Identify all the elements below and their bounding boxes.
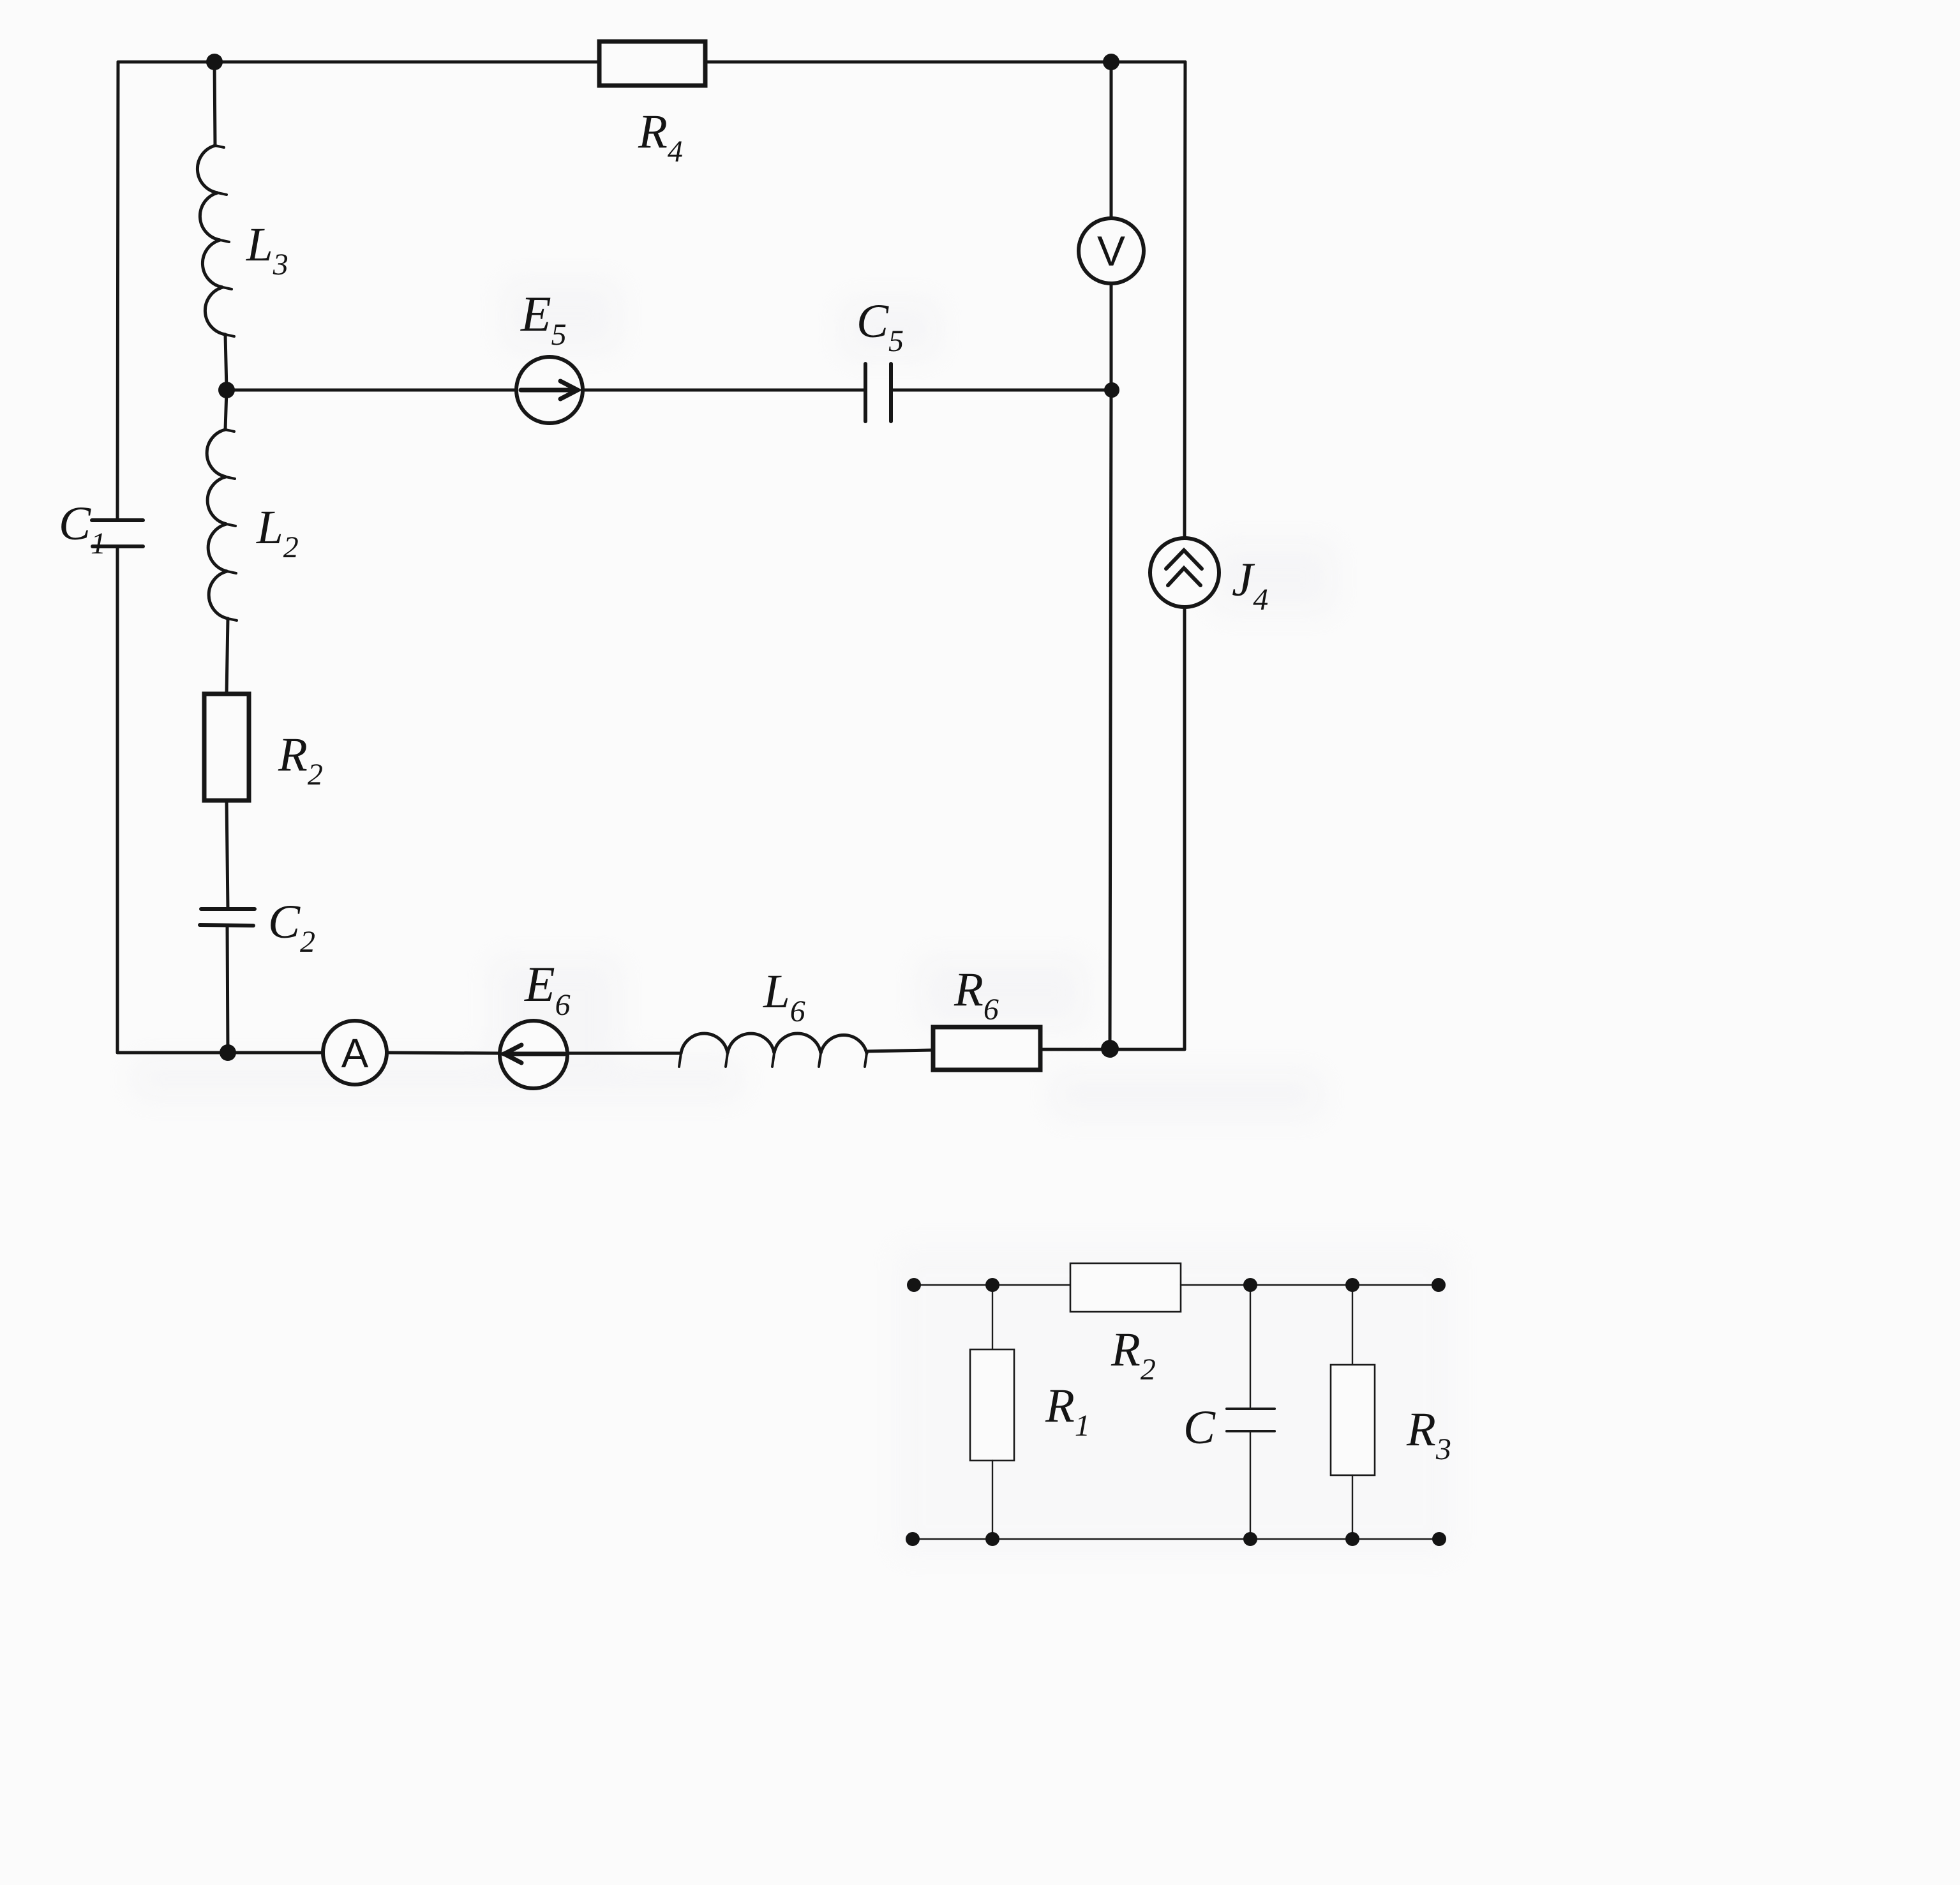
- svg-text:L6: L6: [763, 965, 805, 1028]
- wire: outer right vertical upper (top corner down to J4): [1185, 62, 1185, 538]
- wire: middle horizontal, L3/L2 node to E5: [227, 389, 516, 392]
- voltmeter V: [1079, 218, 1144, 283]
- wire: bottom horizontal, ammeter to source E6: [387, 1053, 500, 1053]
- wire: R1 bottom stub: [992, 1461, 993, 1539]
- svg-text:V: V: [1097, 227, 1125, 274]
- wire: C bottom stub: [1250, 1431, 1251, 1539]
- node dot lower top 1: [907, 1278, 921, 1292]
- node dot lower top 2: [985, 1278, 999, 1292]
- voltage source E5: [516, 357, 583, 423]
- wire: L3 tail to middle node: [225, 334, 227, 390]
- svg-text:L2: L2: [256, 501, 299, 564]
- node dot lower top 3: [1243, 1278, 1257, 1292]
- svg-text:L3: L3: [246, 218, 288, 282]
- wire: top horizontal from R4 to top-right corner: [705, 61, 1185, 64]
- wire: left vertical lower segment: [116, 546, 119, 1053]
- wire: stub from middle node into L2: [225, 390, 227, 430]
- node dot middle-left (L3/L2 junction): [218, 382, 235, 398]
- node dot bottom-right: [1101, 1040, 1119, 1058]
- svg-text:C: C: [1183, 1401, 1216, 1454]
- node dot lower bottom 4: [1345, 1532, 1359, 1546]
- capacitor C5: [865, 364, 891, 421]
- wire: stub from top node into L3: [214, 62, 215, 146]
- wire: C2 down to bottom node: [227, 926, 228, 1053]
- node dot middle-right: [1104, 382, 1119, 398]
- wire: bottom horizontal, E6 to L6: [567, 1052, 681, 1055]
- wire: lower bottom rail: [913, 1538, 1439, 1540]
- svg-text:R2: R2: [278, 728, 323, 792]
- inductor L6: [681, 1033, 867, 1053]
- capacitor C2: [200, 909, 255, 926]
- wire: R3 top stub: [1352, 1285, 1353, 1365]
- inductor L3: [197, 146, 225, 334]
- wire: inner right vertical, middle node down to bottom node: [1110, 390, 1111, 1049]
- resistor R2 (lower): [1070, 1263, 1181, 1312]
- wire: left vertical upper segment: [117, 62, 118, 520]
- svg-text:R4: R4: [638, 105, 683, 169]
- capacitor C1: [92, 520, 143, 546]
- node dot lower top 4: [1345, 1278, 1359, 1292]
- wire: bottom horizontal, R6 to bottom-right corner: [1040, 1048, 1185, 1051]
- wire: middle horizontal, C5 to inner right vertical: [891, 389, 1111, 392]
- node dot top-right: [1103, 54, 1119, 70]
- wire: middle horizontal, E5 to C5: [583, 389, 865, 392]
- current source J4: [1150, 538, 1219, 607]
- node dot top-left (L3 junction): [206, 54, 223, 70]
- svg-text:C1: C1: [59, 497, 106, 560]
- voltage source E6: [500, 1021, 567, 1088]
- wire: R1 top stub: [992, 1285, 993, 1349]
- inductor L2: [207, 430, 228, 619]
- node dot lower bottom 3: [1243, 1532, 1257, 1546]
- wire: L2 tail to R2: [227, 619, 228, 694]
- wire: bottom horizontal, left corner to ammeter: [117, 1051, 323, 1055]
- resistor R6: [933, 1027, 1040, 1070]
- svg-text:C2: C2: [268, 896, 315, 959]
- node dot lower bottom 1: [906, 1532, 920, 1546]
- node dot lower bottom 5: [1432, 1532, 1446, 1546]
- node dot bottom-left (C2 junction): [220, 1044, 236, 1061]
- resistor R1 (lower): [970, 1349, 1014, 1461]
- capacitor C (lower): [1227, 1409, 1275, 1431]
- svg-text:A: A: [341, 1030, 369, 1076]
- ammeter A: [323, 1021, 387, 1085]
- wire: lower top rail left of R2: [913, 1284, 1070, 1286]
- wire: top horizontal from top-left corner to R4: [118, 61, 599, 64]
- resistor R4: [599, 41, 705, 86]
- wire: outer right vertical lower (J4 down to bottom corner): [1183, 607, 1186, 1049]
- wire: lower top rail right of R2: [1181, 1284, 1439, 1286]
- arrow of E6 (points left): [504, 1045, 564, 1063]
- wire: R2 to C2: [227, 800, 228, 909]
- wire: inner right vertical, voltmeter to middle node: [1110, 283, 1113, 390]
- J4 double chevron: [1166, 550, 1202, 585]
- node dot lower top 5: [1432, 1278, 1446, 1292]
- resistor R3 (lower): [1331, 1365, 1375, 1475]
- arrow of E5 (points right): [521, 381, 578, 399]
- wire: inner right vertical, top node down to voltmeter: [1110, 62, 1113, 218]
- wire: C top stub: [1250, 1285, 1251, 1409]
- node dot lower bottom 2: [985, 1532, 999, 1546]
- wire: bottom horizontal, L6 to R6: [867, 1050, 933, 1051]
- wire: R3 bottom stub: [1352, 1475, 1353, 1539]
- resistor R2: [204, 694, 249, 800]
